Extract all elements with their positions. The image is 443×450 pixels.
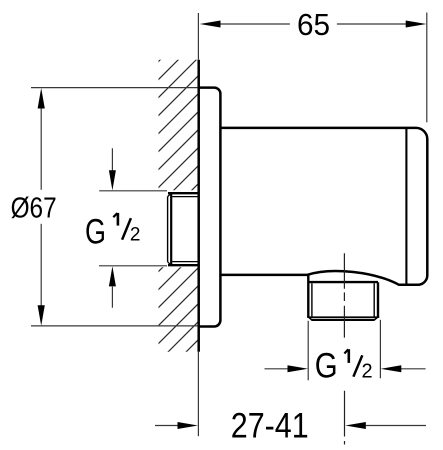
dimension diameter 67 lines	[31, 88, 198, 326]
dimension G1/2 socket up arrow	[109, 266, 116, 286]
dimension 65 left arrow	[200, 21, 221, 28]
outlet thread boss	[307, 276, 379, 321]
socket G1/2 thread in wall	[168, 193, 199, 265]
dimension G1/2 outlet left arrow	[288, 365, 309, 372]
body tangent edge	[405, 129, 407, 284]
flange wall plate outline	[199, 88, 221, 327]
svg-text:27-41: 27-41	[231, 406, 309, 445]
label numerator 1 of outlet G1/2	[344, 349, 348, 363]
dimension 65 right arrow	[406, 21, 427, 28]
dimension diameter 67 bottom arrow	[38, 305, 45, 326]
dimension diameter 67 top arrow	[38, 88, 45, 109]
dimension G1/2 socket down arrow	[109, 170, 116, 190]
label fraction slash of outlet G1/2	[353, 355, 362, 376]
wire extension line above wall face	[197, 13, 199, 60]
svg-text:2: 2	[130, 224, 141, 245]
dimension 27-41 left arrow	[178, 422, 199, 429]
wall hatching lower band	[140, 210, 220, 398]
dimension G1/2 outlet lines	[265, 320, 426, 381]
wire extension line below wall face	[197, 352, 199, 436]
wall face line	[197, 60, 200, 352]
dimension G1/2 outlet right arrow	[381, 365, 402, 372]
svg-text:G: G	[315, 346, 338, 385]
body outline	[220, 128, 427, 285]
dimension G1/2 socket lines	[99, 148, 167, 307]
dimension 65 lines	[220, 13, 427, 123]
wall hatching upper band	[140, 0, 220, 242]
svg-text:Ø67: Ø67	[11, 191, 57, 223]
svg-text:65: 65	[297, 7, 330, 42]
dimension 27-41 lines	[155, 425, 426, 427]
svg-text:G: G	[85, 212, 106, 251]
outlet centerline	[343, 253, 345, 444]
svg-text:2: 2	[362, 360, 373, 382]
label numerator 1 of socket G1/2	[113, 213, 118, 226]
label fraction slash of socket G1/2	[122, 218, 131, 240]
dimension 27-41 right arrow	[345, 422, 366, 429]
